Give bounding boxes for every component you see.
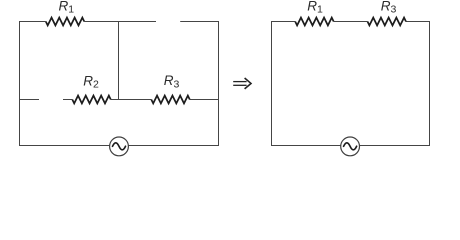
resistor R2 bbox=[72, 96, 110, 104]
wire middle before R2 bbox=[63, 99, 72, 101]
wire middle R2 to R3 via node bbox=[111, 99, 152, 101]
svg-text:R2: R2 bbox=[83, 73, 99, 90]
resistor R3 left bbox=[151, 96, 189, 104]
svg-text:R3: R3 bbox=[381, 0, 397, 16]
wire top after R3 bbox=[406, 21, 430, 23]
wire top between R1 and R3 bbox=[334, 21, 368, 23]
wire bottom-left bbox=[19, 145, 110, 147]
svg-text:R1: R1 bbox=[307, 0, 323, 16]
wire bottom-right bbox=[128, 145, 219, 147]
arrow double right bbox=[233, 78, 251, 89]
wire top before R1 bbox=[271, 21, 295, 23]
wire right edge bbox=[218, 22, 220, 146]
wire top-left segment bbox=[19, 21, 46, 23]
svg-text:R3: R3 bbox=[164, 73, 180, 90]
wire right edge right circuit bbox=[429, 22, 431, 146]
wire bottom-left right circuit bbox=[271, 145, 341, 147]
svg-text:R1: R1 bbox=[59, 0, 75, 16]
resistor R3 right bbox=[368, 18, 406, 26]
resistor R1 right bbox=[295, 18, 333, 26]
wire bottom-right right circuit bbox=[359, 145, 430, 147]
wire top-right segment after gap bbox=[180, 21, 219, 23]
wire middle vertical branch bbox=[118, 22, 120, 100]
wire left edge right circuit bbox=[271, 22, 273, 146]
AC source left bbox=[110, 137, 129, 156]
resistor R1 left bbox=[46, 18, 84, 26]
wire middle-left stub bbox=[19, 99, 39, 101]
wire middle after R3 bbox=[190, 99, 219, 101]
AC source right bbox=[341, 137, 360, 156]
wire top after R1 to open gap bbox=[84, 21, 156, 23]
wire left edge bbox=[19, 22, 21, 146]
